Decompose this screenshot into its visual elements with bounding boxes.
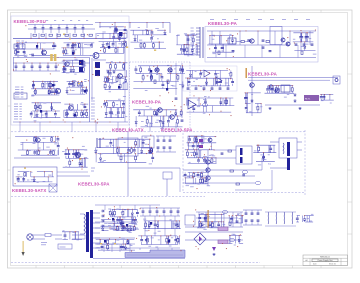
svg-text:KEBEL30-5PA: KEBEL30-5PA xyxy=(78,182,110,187)
svg-text:KEBEL30-PA: KEBEL30-PA xyxy=(132,100,162,105)
svg-text:KEBEL30-PA: KEBEL30-PA xyxy=(208,21,238,26)
svg-text:KEBEL30-5ATX: KEBEL30-5ATX xyxy=(12,188,47,193)
svg-text:KEBEL30-PA: KEBEL30-PA xyxy=(248,72,278,77)
svg-text:RLY1: RLY1 xyxy=(305,99,311,101)
svg-text:Power Supply Unit: Power Supply Unit xyxy=(318,259,333,262)
svg-text:KEBEL30-PSU: KEBEL30-PSU xyxy=(14,19,46,24)
svg-text:KEBEL30-ATX: KEBEL30-ATX xyxy=(112,128,144,133)
svg-text:KEBEL30-5PA: KEBEL30-5PA xyxy=(161,128,193,133)
svg-text:A4: A4 xyxy=(306,259,308,262)
svg-text:KEBL30-01: KEBL30-01 xyxy=(320,257,330,259)
